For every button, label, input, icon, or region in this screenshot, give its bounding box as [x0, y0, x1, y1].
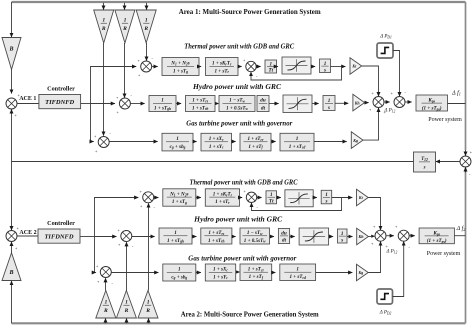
svg-text:Controller: Controller [47, 86, 75, 93]
block hydro GRC rate limiter area1 [283, 95, 312, 113]
wire hydro governor to droop compensation [176, 103, 181, 105]
svg-text:Power system: Power system [427, 251, 461, 257]
svg-text:1: 1 [102, 18, 105, 24]
wire valve positioner 2 to combustor 2 [236, 270, 240, 273]
wire hydro summer 2 to hydro governor 2 [132, 236, 155, 238]
svg-text:TIFDNFD: TIFDNFD [45, 100, 75, 106]
svg-text:1: 1 [178, 267, 181, 273]
wire hydro integrator to Kh gain [335, 102, 348, 104]
svg-text:1: 1 [174, 230, 177, 236]
svg-text:Area 1: Multi-Source Power Gen: Area 1: Multi-Source Power Generation Sy… [179, 7, 322, 16]
svg-text:Δ P12: Δ P12 [386, 250, 398, 255]
svg-text:1: 1 [125, 300, 128, 306]
svg-text:1 + sKrTr: 1 + sKrTr [213, 192, 233, 198]
gain Kt (area 2) [357, 189, 369, 206]
wire droop d output to gas summer 2 [105, 278, 107, 290]
summer total generation (area 2) [371, 224, 389, 249]
wire compressor discharge 2 to Kg gain 2 [316, 272, 353, 274]
block thermal reheat (1+sKrTr)/(1+sTr) area1 [206, 58, 239, 76]
wire right vertical bus lower (Δf2) [465, 168, 467, 323]
wire thermal GRC feedback area2 [252, 198, 342, 211]
wire step load ΔPD1 to load summer [393, 51, 400, 97]
summer tie-line [460, 150, 473, 178]
block gas speed governor 1/(cg+sbg) area1 [162, 133, 193, 151]
wire 1/Tt 2 to GRC limiter 2 [277, 197, 281, 199]
summer thermal input (area 1) [138, 56, 154, 78]
svg-text:B: B [8, 270, 13, 276]
svg-text:s: s [323, 67, 326, 73]
summer gas input (area 2) [96, 264, 114, 286]
svg-text:R: R [143, 26, 148, 32]
block hydro du/dt area1 [257, 96, 269, 112]
summer total generation (area 1) [369, 91, 387, 115]
wire power system 1 output to right bus [448, 103, 466, 105]
svg-text:Thermal power unit with GDB an: Thermal power unit with GDB and GRC [184, 44, 294, 51]
svg-text:Controller: Controller [47, 220, 75, 227]
svg-text:Kg: Kg [352, 138, 358, 143]
wire droop f output to thermal summer 2 [148, 203, 150, 290]
wire Kh output to generation summer [365, 102, 369, 104]
svg-text:1: 1 [176, 136, 179, 142]
svg-text:R: R [124, 308, 129, 314]
wire tie-line signal down to ACE2 [11, 162, 13, 231]
svg-text:1 + sXc: 1 + sXc [213, 267, 228, 273]
block hydro governor 1/(1+sTgh) area1 [149, 96, 176, 112]
wire from top bus down to B1 [11, 2, 13, 37]
svg-text:Thermal power unit with GDB an: Thermal power unit with GDB and GRC [190, 179, 298, 186]
svg-text:1: 1 [296, 136, 299, 142]
block tie-line T12/s [414, 152, 436, 172]
wire B1 output to ACE1 summer [11, 70, 13, 94]
wire droop a output to gas summer 1 [103, 43, 105, 136]
svg-text:Power system: Power system [428, 117, 462, 123]
gain B2 (frequency bias, area 2) [2, 253, 21, 281]
gain Kt (area 1) [350, 58, 362, 75]
block hydro integrator 1/s area2 [338, 229, 348, 244]
svg-text:B: B [8, 47, 13, 53]
summer load disturbance (area 2) [395, 224, 411, 250]
wire Kt 2 output down to generation summer 2 [368, 198, 380, 231]
summer gas input (area 1) [94, 131, 112, 154]
svg-text:du: du [281, 230, 287, 236]
block hydro governor 1/(1+sTgh) area2 [159, 228, 192, 244]
svg-text:Kh: Kh [354, 100, 361, 105]
svg-text:Hydro power unit with GRC: Hydro power unit with GRC [192, 84, 282, 91]
summer hydro input (area 1) [116, 93, 133, 115]
wire Δf1 down into tie summer [465, 150, 467, 156]
wire tie-line signal up into ACE1 [11, 109, 13, 161]
wire stub bus to droop 1/R c [146, 3, 148, 10]
wire branch to hydro summer 2 [95, 236, 117, 238]
wire stub bus up to droop 1/R f [148, 318, 150, 323]
wire branch up to thermal summer 2 [95, 198, 139, 237]
block hydro penstock (1-sTw)/(1+0.5sTw) area1 [219, 96, 255, 112]
gain Kh (area 2) [357, 228, 369, 245]
wire du/dt to hydro limiter [269, 103, 279, 105]
wire T12 output across to left rail [12, 161, 414, 163]
wire combustor to compressor discharge [271, 141, 276, 143]
svg-text:1: 1 [105, 300, 108, 306]
wire thermal GRC feedback [251, 67, 342, 81]
svg-text:Kh: Kh [358, 234, 365, 239]
wire thermal summer to governor box [152, 66, 158, 68]
wire hydro governor 2 to droop compensation 2 [192, 236, 196, 238]
wire branch up to thermal summer 1 [91, 67, 137, 104]
block gas combustor (1+sTcr)/(1+sTf) area2 [240, 264, 272, 281]
wire B2 output to ACE2 summer [11, 242, 13, 253]
wire generation summer 2 to load summer 2 [386, 235, 394, 237]
block thermal integrator 1/s area2 [321, 190, 332, 204]
gain droop 1/R f (area 2) [138, 290, 158, 318]
block thermal governor (N1+N2s)/(1+sTg) area1 [162, 58, 199, 76]
svg-text:R: R [103, 308, 108, 314]
wire compressor discharge to Kg gain [314, 141, 347, 143]
wire integrator to Kt gain [331, 66, 346, 68]
wire gas governor 2 to valve positioner 2 [196, 272, 201, 274]
gain droop 1/R b (area 1) [115, 10, 135, 43]
svg-text:Δ PD1: Δ PD1 [379, 35, 392, 40]
wire droop comp 2 to penstock 2 [232, 236, 236, 238]
gain Kh (area 1) [353, 94, 365, 111]
wire integrator 2 to Kt gain 2 [332, 197, 353, 199]
wire step load ΔPD2 to load summer 2 [393, 242, 404, 297]
wire gas summer 2 to gas governor 2 [111, 272, 158, 274]
svg-text:1 + sYc: 1 + sYc [209, 144, 224, 150]
svg-text:Gas turbine power unit with go: Gas turbine power unit with governor [188, 255, 296, 262]
wire limiter 2 to integrator 2 [313, 197, 317, 199]
svg-text:R: R [145, 308, 150, 314]
svg-text:Area 2: Multi-Source Power Gen: Area 2: Multi-Source Power Generation Sy… [181, 309, 320, 318]
svg-text:ACE 2: ACE 2 [19, 230, 36, 236]
block gas valve positioner (1+sXc)/(1+sYc) area1 [201, 133, 232, 151]
summer thermal GRC (area 1) [243, 58, 258, 79]
wire top feedback bus Δf1 [12, 1, 466, 3]
svg-text:Hydro power unit with GRC: Hydro power unit with GRC [193, 216, 283, 223]
wire bottom feedback bus Δf2 [12, 322, 466, 324]
summer thermal GRC (area 2) [244, 188, 259, 209]
wire branch down to gas summer 2 [95, 237, 96, 273]
svg-text:Tt: Tt [269, 68, 274, 74]
wire Kh 2 output to generation summer 2 [368, 236, 371, 238]
wire Kt output to generation summer [362, 66, 379, 96]
svg-text:1 + sTg: 1 + sTg [172, 199, 187, 205]
gain droop 1/R d (area 2) [96, 290, 116, 318]
block power system 2 Kps/(1+sTps) [419, 228, 454, 244]
wire droop e output to hydro summer 2 [126, 242, 128, 290]
wire stub bus up to droop 1/R d [105, 318, 107, 323]
wire ACE2 to controller 2 [17, 235, 38, 237]
wire Kg output up to generation summer [363, 108, 379, 140]
gain Kg (area 2) [357, 264, 369, 281]
wire gas summer to gas governor [109, 141, 157, 143]
wire hydro integrator 2 to Kh gain 2 [347, 236, 353, 238]
svg-text:1 + 0.5sTw: 1 + 0.5sTw [226, 105, 248, 111]
svg-text:1 + sKrTr: 1 + sKrTr [212, 61, 232, 67]
block gas compressor discharge 1/(1+sTcd) area1 [280, 133, 314, 151]
summer hydro input (area 2) [118, 228, 135, 249]
wire hydro limiter to integrator [312, 103, 319, 105]
wire gas governor to valve positioner [193, 141, 197, 143]
svg-text:ACE 1: ACE 1 [19, 96, 36, 102]
svg-text:1: 1 [296, 267, 299, 273]
svg-text:Δ f1: Δ f1 [451, 90, 461, 97]
svg-text:N1 + N2s: N1 + N2s [170, 61, 189, 67]
svg-text:1 + sTr: 1 + sTr [215, 199, 230, 205]
summer load disturbance (area 1) [391, 90, 407, 108]
svg-text:1 + sXc: 1 + sXc [209, 136, 224, 142]
block hydro integrator 1/s area1 [323, 96, 335, 112]
svg-text:1: 1 [328, 98, 331, 104]
svg-text:s: s [327, 105, 330, 111]
svg-text:Kg: Kg [357, 270, 363, 275]
summer ACE1 [6, 93, 21, 118]
wire limiter to integrator [311, 66, 315, 68]
block gas speed governor 1/(cg+sbg) area2 [163, 264, 196, 281]
block gas combustor (1+sTcr)/(1+sTf) area1 [240, 133, 271, 151]
svg-text:1: 1 [161, 98, 164, 104]
wire stub bus up to droop 1/R e [126, 318, 128, 323]
wire Δf2 up into tie summer [465, 167, 467, 172]
block thermal governor (N1+N2s)/(1+sTg) area2 [163, 189, 196, 206]
wire valve positioner to combustor [232, 141, 236, 143]
wire bottom bus up into B2 [11, 281, 13, 323]
wire governor to reheat box [199, 66, 201, 68]
controller U2 TIFDNFD (area 2) [38, 229, 80, 243]
svg-text:1 + sTf: 1 + sTf [249, 274, 264, 280]
source step load ΔPD2 [377, 289, 393, 304]
block hydro droop compensation (1+sTrs)/(1+sTrh) area1 [186, 96, 216, 112]
wire ACE1 to controller 1 [17, 103, 39, 105]
svg-text:s: s [423, 165, 426, 170]
wire branch down to gas summer 1 [91, 104, 94, 142]
block hydro penstock (1-sTw)/(1+0.5sTw) area2 [240, 228, 270, 244]
svg-text:Δ PD2: Δ PD2 [379, 311, 392, 316]
svg-text:T12: T12 [421, 157, 428, 162]
wire penstock 2 to du/dt 2 [270, 236, 275, 238]
svg-text:s: s [340, 238, 343, 244]
svg-text:dt: dt [282, 237, 287, 243]
gain droop 1/R e (area 2) [116, 290, 136, 318]
wire generation summer to load summer (area 1) [384, 101, 390, 103]
svg-text:Δ f2: Δ f2 [456, 225, 466, 232]
source step load ΔPD1 [377, 43, 393, 58]
block gas compressor discharge 1/(1+sTcd) area2 [280, 264, 316, 281]
svg-text:1 + sTg: 1 + sTg [173, 68, 188, 74]
wire hydro summer to hydro governor [130, 103, 144, 105]
svg-text:Gas turbine power unit with go: Gas turbine power unit with governor [186, 121, 292, 128]
wire Kg 2 output up to generation summer 2 [368, 242, 380, 273]
wire controller 2 output trunk [80, 236, 95, 238]
block hydro droop compensation (1+sTrs)/(1+sTrh) area2 [201, 228, 232, 244]
wire right vertical bus upper (Δf1 to tie summer) [465, 2, 467, 150]
block power system 1 Kps/(1+sTps) [416, 95, 448, 112]
wire reheat 2 to GRC summer 2 [240, 197, 243, 199]
wire GRC summer to 1/Tt [256, 66, 260, 68]
svg-text:1: 1 [124, 18, 127, 24]
wire load summer to power system 1 [405, 101, 412, 103]
wire stub bus to droop 1/R b [124, 3, 126, 10]
block thermal 1/Tt area2 [266, 191, 277, 205]
svg-text:1 + sYc: 1 + sYc [213, 274, 228, 280]
wire governor 2 to reheat box [196, 197, 201, 199]
block thermal GRC rate limiter area2 [285, 190, 313, 207]
gain droop 1/R a (area 1) [94, 10, 114, 43]
wire GRC summer 2 to 1/Tt [257, 197, 262, 199]
wire du/dt 2 to hydro limiter 2 [290, 236, 295, 238]
wire branch to hydro summer 1 [91, 103, 115, 105]
svg-text:s: s [325, 199, 328, 205]
svg-text:R: R [122, 26, 127, 32]
wire hydro limiter 2 to integrator 2 [329, 236, 334, 238]
wire 1/Tt to GRC limiter [277, 66, 278, 68]
svg-text:1: 1 [147, 300, 150, 306]
wire load summer 2 to power system 2 [409, 235, 415, 237]
block thermal integrator 1/s area1 [320, 59, 331, 73]
svg-text:1 + 0.5sTw: 1 + 0.5sTw [244, 238, 266, 244]
summer ACE2 [6, 226, 20, 251]
summer thermal input (area 2) [140, 189, 156, 210]
block thermal 1/Tt area1 [265, 60, 277, 74]
svg-text:1: 1 [145, 18, 148, 24]
block thermal GRC rate limiter area1 [282, 57, 311, 74]
svg-text:R: R [101, 26, 106, 32]
gain B1 (frequency bias, area 1) [2, 38, 21, 70]
wire thermal summer 2 to governor box [154, 197, 159, 199]
block gas valve positioner (1+sXc)/(1+sYc) area2 [205, 264, 235, 281]
wire reheat to GRC summer [238, 66, 242, 68]
wire droop c output to thermal summer 1 [146, 43, 148, 61]
wire tie summer to T12 block [436, 161, 460, 163]
block hydro GRC rate limiter area2 [299, 228, 329, 245]
gain droop 1/R c (area 1) [136, 10, 156, 43]
svg-text:dt: dt [261, 105, 266, 111]
controller U1 TIFDNFD (area 1) [39, 95, 81, 109]
wire power system 2 output to right bus [454, 235, 465, 237]
svg-text:1 + sTr: 1 + sTr [214, 68, 229, 74]
svg-text:Tt: Tt [269, 198, 274, 204]
svg-text:TIFDNFD: TIFDNFD [45, 235, 75, 241]
wire droop b output to hydro summer 1 [124, 43, 126, 98]
gain Kg (area 1) [351, 132, 363, 149]
wire droop comp to penstock [215, 102, 219, 105]
wire controller 1 output trunk [81, 103, 91, 105]
wire stub bus to droop 1/R a [103, 3, 105, 10]
svg-text:N1 + N2s: N1 + N2s [169, 192, 188, 198]
block hydro du/dt area2 [278, 229, 289, 244]
svg-text:du: du [260, 98, 266, 104]
block thermal reheat (1+sKrTr)/(1+sTr) area2 [205, 189, 239, 206]
svg-text:Δ P12: Δ P12 [384, 109, 396, 114]
wire combustor 2 to compressor discharge 2 [272, 272, 276, 274]
svg-text:1 + sTf: 1 + sTf [248, 144, 263, 150]
